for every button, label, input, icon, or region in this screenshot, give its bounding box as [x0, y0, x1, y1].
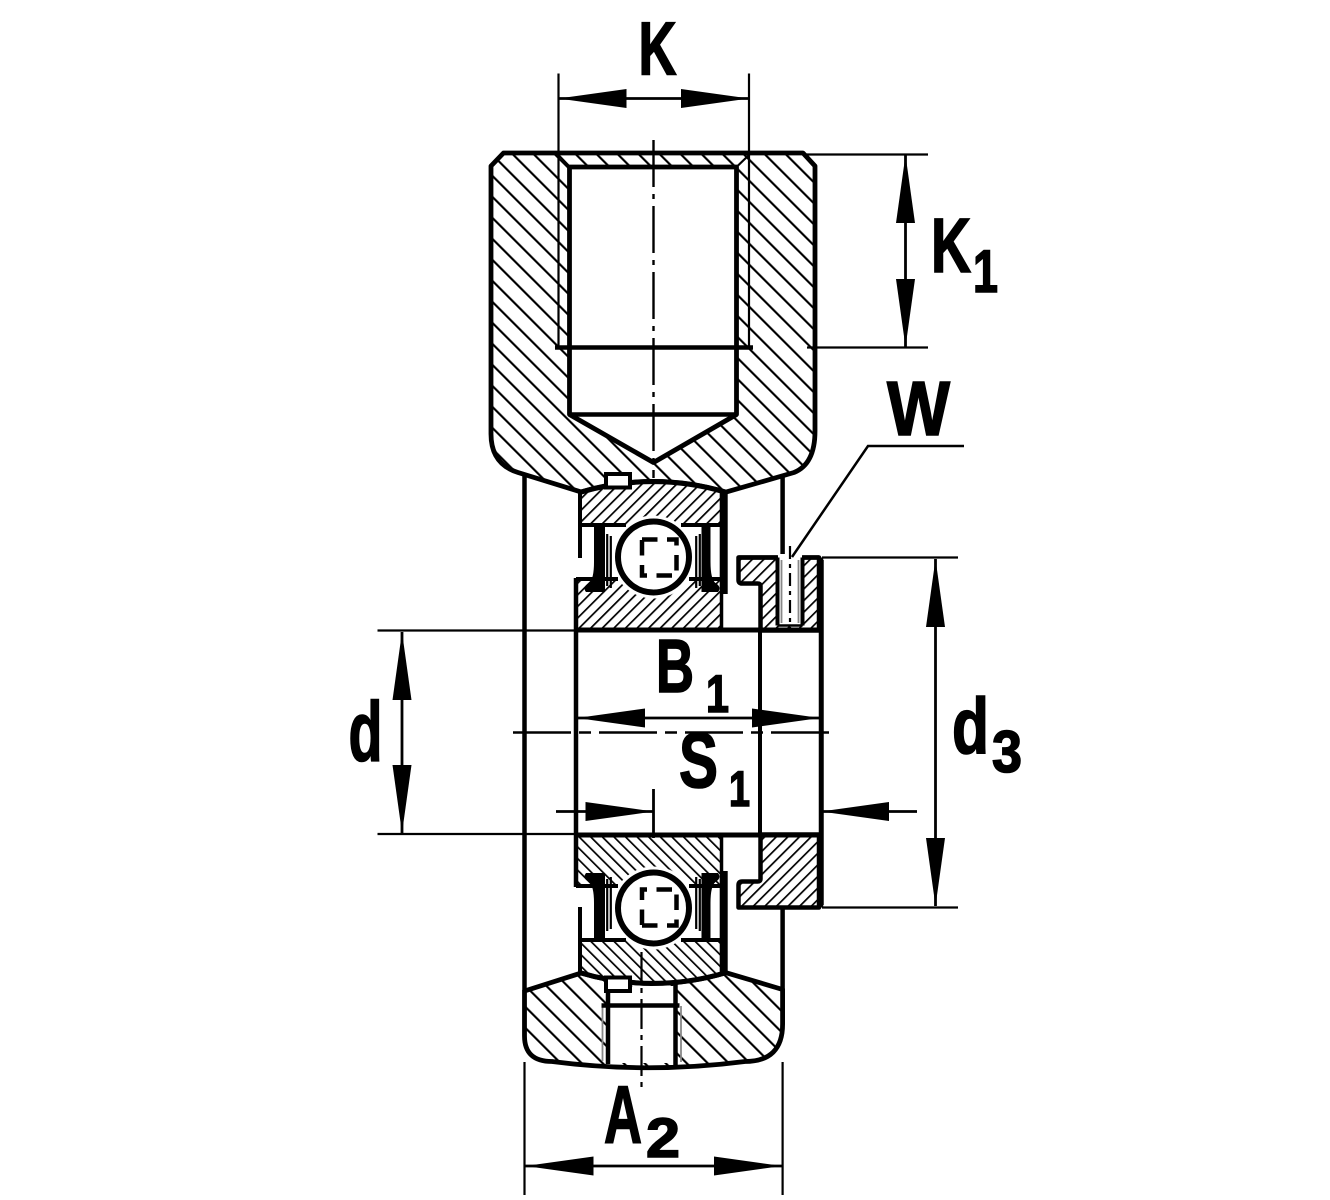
collar right face line	[819, 558, 824, 908]
set screw centerline	[789, 546, 791, 629]
inner/outer ring right face bar	[720, 493, 728, 594]
ball hidden square (dashed)	[642, 540, 677, 576]
drill hole shoulder line	[570, 412, 737, 417]
top bearing half	[576, 474, 728, 630]
housing top block (hatched section with threaded hole K)	[491, 153, 815, 492]
thread major diameter thin lines	[557, 74, 559, 348]
bearing outer ring hatched cap	[580, 482, 725, 525]
dimension d3 extension lines	[822, 556, 958, 558]
horizontal shaft axis centerline	[513, 731, 833, 733]
bottom hole centerline	[640, 952, 642, 1093]
thread depth line (thick)	[555, 345, 753, 350]
inner ring shoulder band	[576, 870, 722, 886]
bottom mounting hole (white)	[608, 986, 676, 1063]
dimension d3 line and arrows	[934, 559, 937, 906]
outer ring faces	[578, 490, 582, 558]
svg-text:K: K	[931, 203, 971, 289]
inner/outer ring right face bar	[720, 871, 728, 972]
ball hidden square (dashed)	[642, 890, 677, 926]
dimension B1 line and arrows	[577, 717, 820, 720]
svg-text:d: d	[349, 685, 383, 779]
svg-text:2: 2	[646, 1106, 680, 1169]
collar left face line through bore	[758, 630, 762, 835]
set screw slot (white)	[778, 554, 803, 626]
ball	[618, 522, 689, 593]
outer ring bottom flats	[580, 523, 626, 527]
bottom hole thread thin lines	[602, 1006, 604, 1061]
dimension A2 extension lines	[523, 1062, 525, 1195]
outer ring bottom flats	[580, 938, 626, 942]
right seal	[702, 873, 720, 941]
dimension S1 line and arrows	[556, 810, 654, 813]
locking collar top section (with lip over eccentric gap)	[739, 558, 820, 631]
thread chamfer lines at hole top	[557, 154, 570, 168]
inner ring main band	[576, 835, 722, 870]
inner ring shoulder edges	[576, 577, 618, 581]
ball pocket (white punch)	[612, 516, 695, 599]
housing body right side line (interrupted by collar)	[780, 475, 785, 558]
locking collar bottom section (mirror)	[739, 835, 820, 908]
outer ring locating tab	[606, 474, 630, 488]
bearing outer ring hatched cap	[580, 940, 725, 983]
W leader line	[792, 446, 964, 557]
svg-text:3: 3	[992, 719, 1022, 785]
bottom bearing half (mirror)	[576, 835, 728, 991]
ball pocket (white punch)	[612, 867, 695, 950]
vertical centerline (top)	[652, 140, 654, 478]
seal lip thin lines	[606, 879, 608, 931]
svg-text:A: A	[604, 1070, 642, 1161]
svg-text:1: 1	[973, 238, 998, 305]
outer ring OD arc	[580, 482, 725, 493]
svg-text:S: S	[679, 716, 718, 804]
dimension K1 line and arrows	[904, 155, 907, 347]
dimension A2 line and arrows	[526, 1165, 783, 1168]
inner ring left face line	[574, 578, 579, 887]
dimension S1 center extension	[652, 789, 655, 838]
collar top edge segments	[739, 555, 779, 560]
inner ring shoulder edges	[576, 884, 618, 888]
bottom hole spotface step	[606, 985, 632, 987]
ball	[618, 873, 689, 944]
bottom hole edges	[606, 986, 611, 1064]
dimension K1 extension lines	[806, 153, 928, 155]
housing body left side line	[522, 474, 527, 992]
dimension d extension lines	[378, 629, 755, 631]
svg-text:W: W	[887, 366, 950, 452]
svg-text:d: d	[952, 681, 989, 770]
housing bottom dome (hatched)	[525, 973, 783, 1068]
bore line top (inner ring bore)	[576, 628, 821, 633]
collar right face line	[819, 560, 824, 905]
bottom hole counterbore line	[602, 1003, 680, 1008]
svg-text:B: B	[656, 624, 694, 708]
set screw thread thin lines	[781, 560, 783, 623]
dimension K line and arrows	[559, 97, 750, 100]
outer ring locating tab	[606, 978, 630, 992]
bore line bottom	[576, 833, 821, 838]
set screw hole edges	[776, 558, 780, 626]
left seal	[585, 524, 605, 592]
inner ring shoulder band	[576, 579, 722, 595]
svg-text:1: 1	[729, 761, 750, 817]
right seal	[702, 524, 720, 592]
outer ring OD arc	[580, 973, 725, 984]
left seal	[585, 873, 605, 941]
inner ring main band	[576, 595, 722, 630]
seal lip thin lines	[606, 534, 608, 586]
dimension d line and arrows	[401, 632, 404, 833]
outer ring faces	[578, 907, 582, 975]
svg-text:K: K	[639, 7, 677, 91]
